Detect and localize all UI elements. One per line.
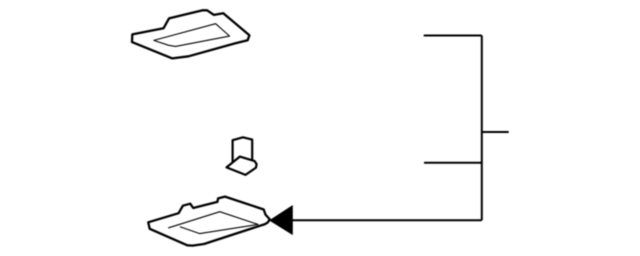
bracket middle-left horizontal line xyxy=(424,162,482,164)
lamp housing (top) outer outline xyxy=(132,10,249,58)
leader line from arrow xyxy=(291,219,482,221)
lamp housing (bottom) outer outline xyxy=(148,197,270,246)
bracket right tick xyxy=(482,131,509,133)
lamp lens (bottom) inner outline xyxy=(169,212,258,234)
bulb base xyxy=(227,157,257,175)
bulb body xyxy=(233,137,253,162)
lamp lens (top) inner outline xyxy=(154,24,230,47)
arrow pointer xyxy=(270,206,292,234)
bracket vertical line xyxy=(481,36,483,221)
bracket top horizontal line xyxy=(424,35,482,37)
